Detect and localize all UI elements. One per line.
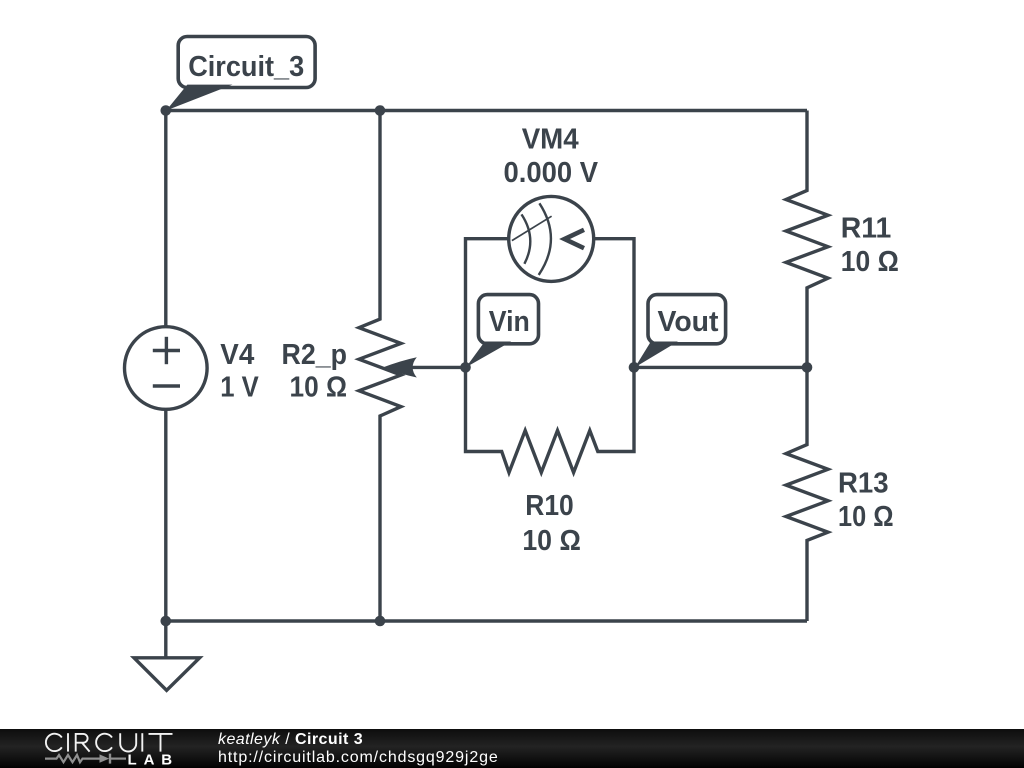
svg-text:V4: V4 xyxy=(220,339,254,371)
node top R2_p xyxy=(375,105,386,116)
voltmeter VM4 xyxy=(509,196,594,281)
wire bottom horizontal xyxy=(166,619,807,622)
footer attribution text xyxy=(218,731,499,767)
svg-text:R11: R11 xyxy=(841,212,892,244)
svg-text:Circuit_3: Circuit_3 xyxy=(188,51,304,83)
svg-text:R13: R13 xyxy=(838,467,889,499)
svg-text:10 Ω: 10 Ω xyxy=(522,525,581,557)
potentiometer R2_p body xyxy=(359,111,401,622)
wire Vout to right rail xyxy=(634,366,807,369)
svg-text:LAB: LAB xyxy=(128,752,180,768)
svg-text:VM4: VM4 xyxy=(522,124,579,156)
resistor R13 xyxy=(786,367,828,621)
svg-text:Vin: Vin xyxy=(489,306,530,338)
wire left vertical upper xyxy=(164,111,167,331)
voltage source V4 xyxy=(125,327,208,410)
wire voltmeter left branch xyxy=(466,239,510,368)
node top-left xyxy=(161,105,172,116)
wire left vertical lower xyxy=(164,406,167,621)
wire top horizontal xyxy=(166,109,807,112)
svg-text:Vout: Vout xyxy=(658,306,719,338)
footer bar xyxy=(0,729,1024,768)
svg-text:10 Ω: 10 Ω xyxy=(290,372,348,404)
net flag Vout xyxy=(635,295,726,368)
svg-text:10 Ω: 10 Ω xyxy=(841,246,899,278)
svg-text:1 V: 1 V xyxy=(220,372,259,404)
node Vout xyxy=(629,362,640,373)
wire voltmeter right branch xyxy=(593,239,634,368)
svg-text:R2_p: R2_p xyxy=(282,339,348,371)
svg-text:10 Ω: 10 Ω xyxy=(838,501,894,533)
node right rail xyxy=(802,362,813,373)
svg-text:R10: R10 xyxy=(525,490,574,522)
potentiometer R2_p wiper arrow xyxy=(383,357,466,377)
CircuitLab logo xyxy=(0,729,200,768)
ground xyxy=(134,621,200,690)
svg-text:0.000 V: 0.000 V xyxy=(504,157,599,189)
resistor R10 xyxy=(466,367,635,472)
net label Circuit_3 xyxy=(166,37,315,111)
node bottom-left xyxy=(161,616,172,627)
node Vin xyxy=(460,362,471,373)
net flag Vin xyxy=(466,295,539,368)
resistor R11 xyxy=(786,111,828,368)
node bottom R2_p xyxy=(375,616,386,627)
